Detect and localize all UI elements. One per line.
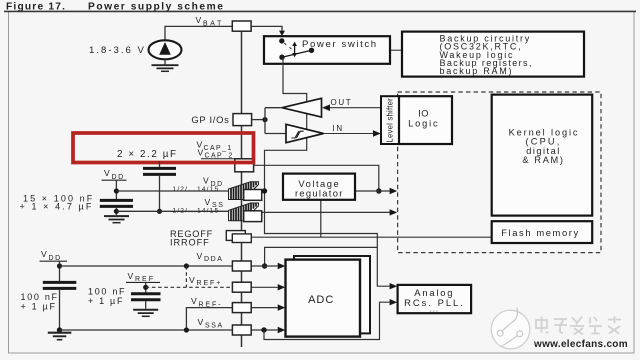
svg-text:www.elecfans.com: www.elecfans.com <box>533 339 628 350</box>
svg-text:V: V <box>198 317 204 327</box>
dashed kernel domain box <box>398 92 601 253</box>
svg-text:Logic: Logic <box>408 119 439 129</box>
svg-text:2 × 2.2 µF: 2 × 2.2 µF <box>117 149 178 160</box>
wire VSS rail <box>116 210 230 212</box>
pad VREF- <box>232 303 251 313</box>
svg-text:CAP_1: CAP_1 <box>204 145 233 152</box>
wire VSS to kernel <box>262 209 398 215</box>
svg-text:V: V <box>196 15 202 25</box>
svg-text:REF+: REF+ <box>197 280 223 287</box>
voltage source V1 1.8-3.6V <box>149 40 182 59</box>
IO logic box U8 <box>399 96 452 144</box>
svg-text:GP I/Os: GP I/Os <box>191 114 229 125</box>
pad VSSA <box>232 325 251 335</box>
pad VREF+ <box>232 282 251 292</box>
svg-text:IO: IO <box>418 109 429 119</box>
node VREF- label <box>191 296 222 308</box>
svg-text:OUT: OUT <box>331 98 353 107</box>
node VSS pins label <box>173 197 225 215</box>
pad IRROFF <box>232 234 251 243</box>
svg-text:...: ... <box>429 305 439 314</box>
label 15x100nF <box>20 193 95 211</box>
svg-text:V: V <box>128 271 134 281</box>
label REGOFF IRROFF <box>170 229 213 247</box>
svg-text:SSA: SSA <box>205 323 224 330</box>
capacitor C2 15x100nF <box>100 200 133 215</box>
node VDDA label <box>197 251 224 263</box>
pad VBAT <box>232 21 251 31</box>
wire to analog box upper <box>377 247 397 289</box>
svg-text:Power supply scheme: Power supply scheme <box>88 2 224 13</box>
svg-text:V: V <box>205 197 211 207</box>
pad GP I/Os <box>233 114 252 126</box>
wire VREF+ dashed <box>143 266 285 293</box>
svg-text:+ 1 × 4.7 µF: + 1 × 4.7 µF <box>20 202 94 212</box>
svg-text:DDA: DDA <box>204 256 224 263</box>
wire VDDA rail <box>57 262 285 282</box>
figure caption <box>6 2 224 13</box>
kernel logic box U9 <box>492 95 593 216</box>
main pin line <box>241 30 243 347</box>
analog RCs PLL box U11 <box>398 285 472 314</box>
node VREF label <box>126 271 160 283</box>
svg-text:V: V <box>203 176 209 186</box>
output buffer U3 <box>282 98 381 117</box>
connector VDD multipad <box>229 182 262 201</box>
ground under source <box>152 59 179 71</box>
wire supply jog from switch to VDDA rail <box>262 57 378 268</box>
svg-text:& RAM): & RAM) <box>522 155 564 165</box>
backup circuitry box U2 <box>402 32 584 77</box>
pad VCAP <box>235 159 254 172</box>
svg-text:+ 1 µF: + 1 µF <box>21 301 57 311</box>
red annotation box <box>73 133 254 163</box>
svg-text:1.8-3.6 V: 1.8-3.6 V <box>89 45 146 56</box>
svg-text:V: V <box>41 249 47 259</box>
capacitor C4 100nF VREF <box>131 294 161 309</box>
ground under C3 <box>48 327 72 339</box>
svg-text:regulator: regulator <box>295 188 344 199</box>
wire switch to backup box <box>390 49 402 51</box>
node VDD pins label <box>173 176 224 194</box>
node VSSA label <box>198 317 224 329</box>
svg-text:Power switch: Power switch <box>302 39 378 50</box>
pad REGOFF <box>226 231 245 241</box>
svg-text:BAT: BAT <box>203 20 224 27</box>
voltage regulator U5 <box>283 174 355 200</box>
label 100nF left <box>21 292 59 311</box>
svg-text:V: V <box>197 251 203 261</box>
svg-text:V: V <box>104 168 110 178</box>
node VDD label bottom left <box>40 249 68 262</box>
svg-text:+ 1 µF: + 1 µF <box>88 296 124 306</box>
label 100nF VREF <box>88 286 126 305</box>
watermark text <box>536 316 621 335</box>
capacitor C1 2x2.2uF <box>143 161 176 214</box>
wire regulator bottom branch <box>320 200 322 237</box>
wire VDD rail <box>114 181 231 200</box>
svg-text:backup RAM): backup RAM) <box>440 66 514 76</box>
input schmitt trigger U4 <box>286 124 381 143</box>
wire VBAT top <box>165 26 285 40</box>
svg-text:IN: IN <box>333 124 344 133</box>
svg-text:V: V <box>189 275 195 285</box>
svg-text:Flash memory: Flash memory <box>501 227 580 238</box>
pad VDDA <box>232 261 251 271</box>
connector VSS multipad <box>229 203 262 222</box>
svg-text:Level shifter: Level shifter <box>386 98 395 143</box>
node VREF+ label <box>189 275 222 287</box>
node VDD label left <box>102 168 127 181</box>
svg-text:Figure 17.: Figure 17. <box>6 2 66 13</box>
wire REGOFF to flash <box>251 236 491 238</box>
svg-text:IRROFF: IRROFF <box>170 237 210 247</box>
watermark logo <box>491 308 530 349</box>
wire VSSA rail <box>60 327 286 333</box>
wire VREF- <box>186 304 285 330</box>
power switch SW1 <box>264 36 390 64</box>
svg-text:ADC: ADC <box>308 294 334 306</box>
wire GPIO to buffers <box>252 108 286 134</box>
node VCAP_1 VCAP_2 labels <box>197 140 249 160</box>
svg-text:V: V <box>198 147 204 157</box>
flash memory box U10 <box>492 221 593 243</box>
level shifter box U7 <box>381 96 399 144</box>
wire to analog box lower <box>264 299 397 340</box>
svg-text:1/2/...14/15: 1/2/...14/15 <box>173 186 220 193</box>
capacitor C3 100nF left <box>43 282 77 330</box>
ADC block U6 <box>286 256 371 337</box>
ground under C2 <box>104 216 129 223</box>
node VBAT label <box>196 15 224 27</box>
ground under C4 <box>133 310 158 317</box>
wire VCAP to regulator output <box>254 165 398 194</box>
svg-text:V: V <box>191 296 197 306</box>
svg-text:1/2/...14/15: 1/2/...14/15 <box>173 208 220 215</box>
